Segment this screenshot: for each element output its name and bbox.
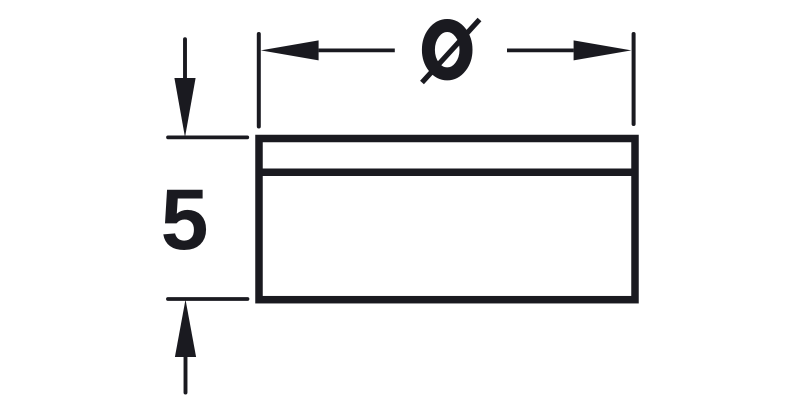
part outline rectangle xyxy=(259,139,635,300)
dimension arrow right xyxy=(507,40,631,60)
extension line left (diameter) xyxy=(257,34,261,127)
dimension arrow left xyxy=(261,40,395,60)
extension line right (diameter) xyxy=(632,34,636,124)
extension line top (height) xyxy=(168,136,247,140)
extension line bottom (height) xyxy=(168,297,248,301)
diameter symbol xyxy=(422,20,480,83)
dimension arrow down xyxy=(174,39,195,137)
svg-text:5: 5 xyxy=(161,172,209,268)
flange edge line xyxy=(256,169,638,177)
dimension arrow up xyxy=(175,300,196,393)
